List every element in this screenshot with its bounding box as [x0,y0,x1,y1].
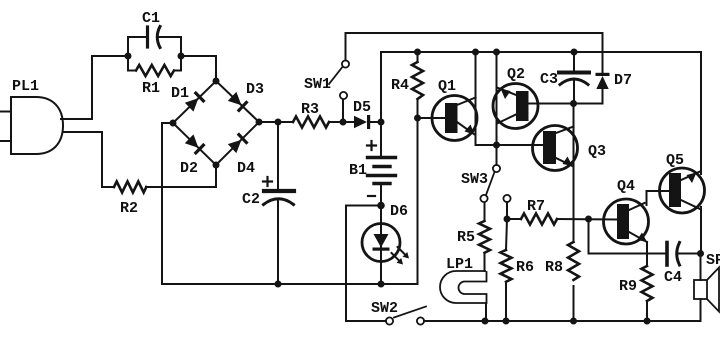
switch SW1 [342,100,344,123]
svg-text:R5: R5 [457,229,475,246]
capacitor C2 curved plate [264,199,294,205]
capacitor C2 top plate [264,189,294,193]
ground rail left [162,283,418,285]
node C1R1 left [125,53,132,60]
svg-text:R3: R3 [301,101,319,118]
wire C2 top [277,122,279,189]
wire R3 to D5 [329,121,355,123]
node C2 tap [275,119,282,126]
wire R6 to rail [505,284,507,321]
svg-text:D3: D3 [246,81,264,98]
wire branch to node [506,202,508,219]
wire rail2 to Q5 emitter [700,52,702,174]
node bridge bottom [213,162,220,169]
bridge edge bottom-left [173,123,216,165]
svg-text:LP1: LP1 [446,256,473,273]
wire PL1 top output to C1/R1 left node [61,56,128,119]
wire R8 to rail [573,286,575,321]
svg-text:SW2: SW2 [371,300,398,317]
node C3/D7/Q2 [570,100,577,107]
svg-text:Q2: Q2 [507,66,525,83]
branch terminal circle R6/R7 [503,195,510,202]
svg-text:Q1: Q1 [438,78,456,95]
wire R1 branch right [174,56,181,71]
wire SW3 to R5 [484,203,486,222]
svg-text:SW1: SW1 [304,76,331,93]
transistor Q4 [604,199,649,244]
capacitor C1 left plate [146,27,149,47]
resistor R2 [114,182,146,193]
node rail2 Q2 [493,49,500,56]
node R6 ground [503,318,510,325]
battery B1 [380,122,382,156]
capacitor C2 plus sign [263,177,272,186]
resistor R1 [136,65,174,76]
node bridge left [170,120,177,127]
transistor Q2 [493,84,538,129]
LED D6 circle [362,224,400,262]
resistor R3 [293,117,329,128]
wire battery minus to SW2 [346,206,386,322]
wire D5 to battery node [369,121,381,123]
wire SW2 to bottom rail [424,320,701,322]
capacitor C4 [665,243,669,266]
svg-text:D4: D4 [237,160,255,177]
wire node to R6 [506,219,507,250]
node R3/SW1 [340,119,347,126]
resistor R6 [501,250,512,282]
resistor R5 [479,221,490,253]
node R8 ground [570,318,577,325]
svg-text:Q5: Q5 [666,152,684,169]
battery B1 plus sign [367,141,376,150]
speaker SP [700,254,702,281]
wire Q5 collector to output node [700,207,702,254]
wire C1R1 to bridge top [181,56,216,81]
transistor Q5 [660,168,705,213]
switch SW2 [386,317,393,324]
svg-text:PL1: PL1 [12,78,39,95]
diode D2 [184,134,205,155]
node D6 ground [378,281,385,288]
svg-text:D1: D1 [171,85,189,102]
wire C1 branch right [159,37,181,56]
node output [697,250,704,257]
diode D4 [227,132,248,153]
wire C1 branch left [128,37,146,56]
svg-text:R1: R1 [142,80,160,97]
wire Q4 emitter to R9 [646,242,648,266]
node bridge right [256,119,263,126]
svg-text:D2: D2 [180,160,198,177]
bridge edge bottom-right [216,122,259,165]
node R9 ground [644,318,651,325]
resistor R4 [417,52,419,118]
wire C2 bottom [277,199,279,284]
wire Q2 base [528,103,574,105]
diode D3 [227,91,248,112]
svg-text:Q4: Q4 [617,178,635,195]
wire R2 to bridge bottom node [146,165,216,187]
transistor Q1 [432,96,477,141]
node lamp/SW2 [482,318,489,325]
wire Q1 collector vertical [475,52,477,145]
resistor R8 [568,242,579,280]
node bridge top [213,78,220,85]
node R4 top [414,49,421,56]
wire SW1 to top rail1 [346,33,603,74]
svg-text:R8: R8 [545,259,563,276]
bridge edge top-left [173,81,216,123]
capacitor C3 [573,52,575,71]
svg-text:SW3: SW3 [461,171,488,188]
wire C3 node down to R8 [573,104,575,243]
capacitor C1 right curved plate [157,27,160,48]
wire D7 bottom to C3 node [574,88,603,104]
wire bridge left node to ground rail [162,123,173,284]
svg-text:D5: D5 [353,99,371,116]
node R4 bottom / Q1 base [414,115,421,122]
svg-text:D7: D7 [614,72,632,89]
lamp LP1 [440,271,487,303]
LED D6 wire [380,206,382,285]
plug PL1 prong top [0,111,11,113]
plug PL1 prong bottom [0,140,11,142]
svg-text:R2: R2 [120,200,138,217]
rail2 plus wire [381,52,701,122]
switch SW3 [496,145,498,165]
wire PL1 bottom output to R2 [63,132,114,187]
bridge edge top-right [216,81,259,122]
resistor R9 [642,266,653,301]
wire R4 node to ground rail [417,118,419,284]
plug PL1 body [11,97,63,154]
node battery minus [377,202,385,210]
node C1R1 right [178,53,185,60]
node rail2 Q1 [472,49,479,56]
svg-text:SP: SP [706,252,720,269]
wire Q4 collector to Q5 base [647,191,670,205]
svg-text:D6: D6 [390,203,408,220]
svg-text:C4: C4 [664,269,682,286]
wire R9 to rail [646,303,648,321]
wire R5 to lamp [484,253,486,271]
wire bridge right to R3 [259,121,293,123]
svg-text:C1: C1 [142,10,160,27]
node rail2 C3 [571,49,578,56]
wire R1 branch left [128,56,136,71]
node D5/B1 [378,119,385,126]
svg-text:R4: R4 [391,77,409,94]
wire R7 to Q4 base [557,218,617,221]
svg-text:Q3: Q3 [588,143,606,160]
node R6/R7 [504,216,511,223]
wire lamp to bottom rail [485,303,487,321]
LED D6 diode [373,234,390,251]
resistor R7 [507,218,521,220]
diode D1 [184,91,205,112]
svg-text:C3: C3 [540,71,558,88]
svg-text:R6: R6 [516,259,534,276]
transistor Q3 [533,126,578,171]
LED D6 arrows [392,253,402,263]
node base line SW3 [493,142,500,149]
node C2 ground [275,281,282,288]
svg-text:B1: B1 [349,162,367,179]
wire Q2 vertical [496,52,498,145]
svg-text:R9: R9 [619,278,637,295]
diode D5 [354,115,370,129]
node Q4 base [585,216,592,223]
diode D7 [596,73,610,89]
svg-text:R7: R7 [527,198,545,215]
wire base line to Q3 [476,144,546,146]
svg-text:C2: C2 [242,191,260,208]
battery B1 minus sign [368,195,375,197]
wire Q1 base [418,117,446,119]
wire feedback to C4 [589,219,667,254]
